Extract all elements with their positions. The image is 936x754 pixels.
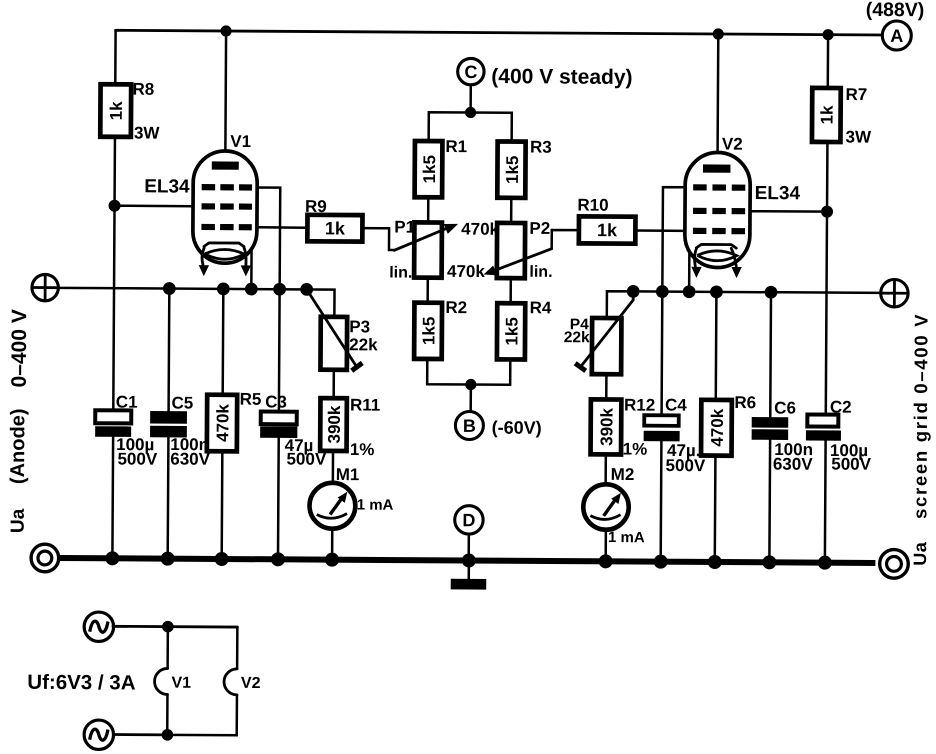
svg-text:P1: P1 xyxy=(394,218,415,237)
wire: P2 wiper elbow to R10 xyxy=(552,230,579,249)
capacitor C1 100u 500V xyxy=(95,392,158,468)
wire: C5 column xyxy=(167,289,170,412)
wire: V2 heater column bottom xyxy=(167,694,237,735)
wire: R8 top lead from rail xyxy=(114,30,117,84)
svg-text:(488V): (488V) xyxy=(866,0,925,21)
wire: bottom heater wire xyxy=(113,733,167,736)
svg-text:(Anode): (Anode) xyxy=(7,408,29,484)
wire: V2 cathode lead down to screen rail xyxy=(688,251,691,291)
resistor R7 xyxy=(812,85,872,147)
svg-text:3W: 3W xyxy=(846,127,873,146)
resistor R10 xyxy=(577,196,635,244)
svg-text:470k: 470k xyxy=(213,403,232,441)
wire: C5 bottom lead xyxy=(166,437,169,558)
junction dot: V2 g1 / C4 tap xyxy=(656,285,669,298)
capacitor C3 47u 500V xyxy=(260,392,327,468)
wire: C4 column xyxy=(660,292,663,416)
junction dot: V2 anode on top rail xyxy=(713,28,724,39)
junction dot: P3 wiper tap xyxy=(300,283,313,296)
junction dot: V1 anode on top rail xyxy=(220,25,231,36)
node A (488V) xyxy=(866,0,925,50)
wire: P2 to R4 xyxy=(509,278,512,303)
svg-text:R1: R1 xyxy=(445,137,467,156)
capacitor C6 100n 630V xyxy=(751,398,813,473)
svg-text:M2: M2 xyxy=(611,465,635,484)
svg-text:C2: C2 xyxy=(830,397,852,416)
svg-text:EL34: EL34 xyxy=(755,183,801,204)
resistor R12 xyxy=(591,395,656,458)
node C (400 V steady) xyxy=(458,58,633,89)
wire: R10 to V2 control grid g3 xyxy=(635,229,685,232)
resistor R3 xyxy=(497,137,552,198)
junction dot: V2 cathode tap xyxy=(683,285,696,298)
svg-text:R2: R2 xyxy=(445,298,467,317)
svg-text:470k: 470k xyxy=(461,220,499,239)
meter M1 1 mA xyxy=(309,465,393,529)
svg-text:M1: M1 xyxy=(336,465,360,484)
svg-text:22k: 22k xyxy=(349,335,378,354)
ground symbol xyxy=(451,560,487,589)
terminal + right (screen grid supply) xyxy=(881,279,909,307)
wire: V1 heater column bottom xyxy=(166,694,169,734)
svg-text:(400 V steady): (400 V steady) xyxy=(491,65,632,89)
tube V1 EL34 xyxy=(144,131,258,276)
resistor R8 xyxy=(100,79,161,142)
wire: V2 heater branch right side xyxy=(236,627,239,669)
svg-text:1%: 1% xyxy=(350,440,375,459)
svg-text:A: A xyxy=(890,26,903,46)
potentiometer P4 22k xyxy=(564,291,634,374)
wire: C6 bottom lead xyxy=(768,440,771,562)
svg-text:screen grid 0–400 V: screen grid 0–400 V xyxy=(909,313,931,519)
junction dot: R6 tap xyxy=(710,285,723,298)
svg-text:R6: R6 xyxy=(734,393,756,412)
junction dot: bridge top xyxy=(465,107,476,118)
svg-text:lin.: lin. xyxy=(389,265,412,282)
wire: node D stem to ground rail xyxy=(467,534,470,560)
svg-text:(-60V): (-60V) xyxy=(492,418,542,438)
svg-text:0–400 V: 0–400 V xyxy=(8,309,31,387)
heater filament V2 xyxy=(224,669,261,695)
svg-text:V2: V2 xyxy=(722,135,743,154)
svg-text:V1: V1 xyxy=(171,675,191,692)
terminal + left (anode supply) xyxy=(32,274,59,301)
potentiometer P2 470k xyxy=(447,218,553,281)
resistor R9 xyxy=(305,197,363,242)
svg-text:C3: C3 xyxy=(265,392,287,411)
svg-text:470k: 470k xyxy=(447,262,485,281)
wire: C6 column xyxy=(769,292,772,417)
junction dot: C5 tap xyxy=(163,282,176,295)
capacitor C2 100u 500V xyxy=(806,397,872,473)
svg-text:R3: R3 xyxy=(530,138,552,157)
svg-text:1%: 1% xyxy=(623,440,648,459)
terminal O right xyxy=(880,550,909,579)
svg-text:390k: 390k xyxy=(597,407,616,445)
svg-text:500V: 500V xyxy=(666,456,706,475)
wire: R8 bottom lead down to grid junction xyxy=(113,137,116,206)
junction dot: V2 g2 / R7 column xyxy=(821,206,833,218)
svg-text:C4: C4 xyxy=(665,395,687,414)
wire: C4 bottom lead xyxy=(659,441,662,561)
svg-text:1k: 1k xyxy=(818,105,837,125)
svg-text:V2: V2 xyxy=(241,675,261,692)
svg-text:R10: R10 xyxy=(577,196,608,215)
AC source bottom (heater supply) xyxy=(84,720,114,750)
wire: V2 screen grid g1 elbow down to screen rail xyxy=(662,187,685,292)
wire: V2 grid g2 lead to R7 column xyxy=(750,210,827,213)
junction dot: V1 g1 / C3 tap xyxy=(273,283,286,296)
svg-text:R8: R8 xyxy=(132,80,154,99)
potentiometer P1 470k xyxy=(389,218,499,283)
junction dot: heater top xyxy=(162,621,174,633)
resistor R2 xyxy=(414,298,467,359)
svg-text:Ua: Ua xyxy=(8,508,29,533)
wire: R11 to M1 xyxy=(332,451,335,483)
terminal O left xyxy=(31,544,59,572)
wire: R6 top lead xyxy=(715,292,718,400)
wire: right screen grid rail xyxy=(607,291,881,319)
svg-text:1 mA: 1 mA xyxy=(357,497,394,514)
wire: M1 to ground rail xyxy=(331,529,334,560)
junction dot: R8 / V1 grid g2 xyxy=(109,200,121,212)
node B (-60V) xyxy=(455,411,541,440)
resistor R11 xyxy=(320,395,380,459)
resistor R5 470k xyxy=(207,389,262,451)
svg-text:V1: V1 xyxy=(230,132,251,151)
svg-text:390k: 390k xyxy=(325,405,344,443)
wire: top supply rail (488V) xyxy=(116,30,883,35)
svg-text:R4: R4 xyxy=(530,298,552,317)
wire: left column down through anode rail to C1 xyxy=(113,206,114,411)
wire: P4 to R12 xyxy=(605,374,608,399)
potentiometer P3 22k xyxy=(306,289,378,370)
junction dot: R5 tap xyxy=(217,282,230,295)
wire: R12 to M2 xyxy=(604,455,607,485)
svg-text:R12: R12 xyxy=(624,396,655,415)
svg-text:22k: 22k xyxy=(564,329,590,346)
wire: bridge bottom spans from R2 and R4 xyxy=(427,359,510,385)
capacitor C5 100n 630V xyxy=(150,393,211,468)
wire: C3 bottom lead xyxy=(277,438,280,559)
wire: bridge top spans to R1 and R3 xyxy=(429,112,512,141)
svg-text:C1: C1 xyxy=(116,393,138,412)
svg-text:630V: 630V xyxy=(773,455,813,474)
wire: C1 bottom lead xyxy=(111,437,114,558)
svg-text:D: D xyxy=(462,510,475,530)
svg-text:P3: P3 xyxy=(349,317,370,336)
wire: R1 to P1 xyxy=(427,197,430,222)
junction dot: heater bottom xyxy=(162,729,174,741)
label: left axis Ua (Anode) 0-400 V xyxy=(7,309,32,533)
svg-text:3W: 3W xyxy=(134,123,161,142)
wire: V1 screen grid g1 elbow down to anode rail xyxy=(257,187,281,289)
svg-text:1k5: 1k5 xyxy=(419,317,438,345)
node D (ground) xyxy=(455,506,484,535)
wire: R7 top lead xyxy=(827,35,830,88)
wire: left anode rail xyxy=(58,288,334,317)
wire: R5 bottom lead xyxy=(220,451,223,559)
wire: R6 bottom lead xyxy=(714,456,717,562)
wire: V2 anode lead xyxy=(716,34,719,167)
wire: V1 cathode lead down to anode rail xyxy=(250,249,253,289)
svg-text:500V: 500V xyxy=(831,455,871,474)
svg-text:Ua: Ua xyxy=(910,541,930,566)
junction dots on ground rail xyxy=(105,551,832,569)
wire: node B stem xyxy=(469,385,472,413)
svg-text:R7: R7 xyxy=(845,85,867,104)
resistor R6 470k xyxy=(701,393,756,456)
svg-text:Uf:6V3 / 3A: Uf:6V3 / 3A xyxy=(27,671,136,695)
resistor R4 xyxy=(497,298,552,360)
label: right axis Ua screen grid 0-400 V xyxy=(909,313,932,566)
svg-text:lin.: lin. xyxy=(529,264,552,281)
wire: R5 top lead xyxy=(221,289,224,395)
junction dot: bridge bottom xyxy=(465,379,476,390)
junction dot: C6 tap xyxy=(765,286,778,299)
wire: V1 anode lead xyxy=(224,31,227,164)
wire: node C stem xyxy=(469,85,472,113)
svg-text:1k: 1k xyxy=(325,218,346,238)
wire: V1 heater column top xyxy=(166,627,169,669)
meter M2 1 mA xyxy=(583,465,645,547)
svg-text:C: C xyxy=(464,62,477,82)
svg-text:C5: C5 xyxy=(171,393,193,412)
capacitor C4 47u 500V xyxy=(643,395,706,475)
junction dot: P4 wiper tap xyxy=(627,285,640,298)
wire: P3 to R11 xyxy=(332,370,335,398)
svg-text:1 mA: 1 mA xyxy=(608,529,645,546)
svg-text:EL34: EL34 xyxy=(144,176,190,197)
AC source top (heater supply) xyxy=(84,612,114,642)
wire: top heater wire xyxy=(113,625,237,629)
wire: M2 to ground rail xyxy=(604,530,607,562)
svg-text:500V: 500V xyxy=(117,449,157,468)
svg-text:1k5: 1k5 xyxy=(503,156,522,184)
svg-text:1k: 1k xyxy=(597,220,618,240)
wire: R7 column down through screen rail to C2 xyxy=(826,142,828,415)
wire: C2 bottom lead xyxy=(824,441,827,563)
svg-text:470k: 470k xyxy=(708,408,727,446)
wire: P1 to R2 xyxy=(426,278,429,303)
wire: bottom 0V ground rail xyxy=(59,558,876,563)
svg-text:1k5: 1k5 xyxy=(502,317,521,345)
wire: V1 control grid g3 to R9 xyxy=(257,226,307,229)
heater filament V1 xyxy=(154,668,191,694)
svg-text:500V: 500V xyxy=(286,449,326,468)
svg-text:R9: R9 xyxy=(305,197,327,216)
resistor R1 xyxy=(415,137,468,198)
svg-text:1k5: 1k5 xyxy=(420,155,439,183)
wire: R3 to P2 xyxy=(510,198,513,223)
svg-text:P2: P2 xyxy=(529,219,550,238)
svg-text:R5: R5 xyxy=(240,390,262,409)
svg-text:1k: 1k xyxy=(107,101,126,121)
tube V2 EL34 xyxy=(685,134,801,278)
svg-text:B: B xyxy=(463,416,476,436)
svg-text:C6: C6 xyxy=(774,398,796,417)
wire: R9 to P1 wiper elbow xyxy=(362,228,395,250)
junction dot: V1 cathode tap xyxy=(245,283,258,296)
wire: V1 grid g2 lead to tube xyxy=(115,204,194,207)
svg-text:R11: R11 xyxy=(350,395,380,414)
junction dot: R7 on top rail xyxy=(822,29,833,40)
wire: C3 column xyxy=(278,289,281,412)
